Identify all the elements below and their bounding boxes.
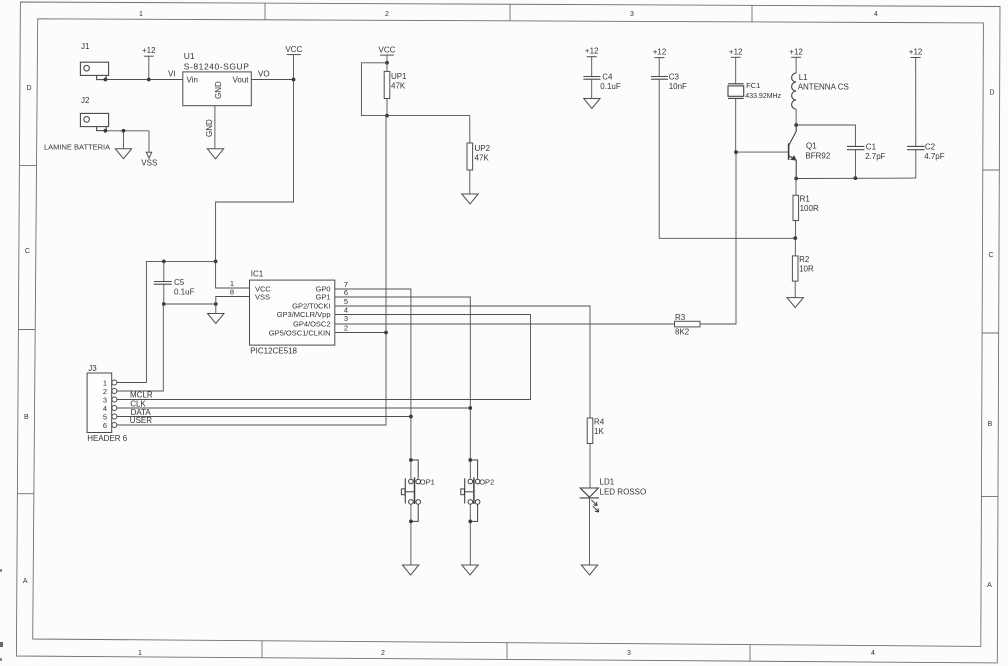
+12 power symbol at C2 (909, 48, 923, 58)
svg-text:C5: C5 (174, 278, 185, 287)
wire to ground (123, 131, 125, 149)
junction UP1 top (385, 61, 389, 65)
junction OP1 bottom (409, 520, 413, 524)
resistor UP2 (467, 143, 473, 170)
resistor R4 (587, 418, 593, 444)
wire collector to C1 (796, 125, 855, 146)
wire C5 top stem (163, 261, 165, 281)
svg-text:0.1uF: 0.1uF (174, 288, 195, 297)
wire C4 top stem (591, 57, 593, 77)
wire VCC branch to J3 pin 1 (117, 261, 216, 382)
wire OP1 bottom contact to ground (410, 504, 412, 565)
capacitor C1 (847, 146, 864, 149)
junction CLK / OP2 column (468, 406, 472, 410)
wire GP0 pin 7 to OP1 top contact (335, 289, 411, 479)
svg-text:UP2: UP2 (475, 144, 491, 153)
svg-text:3: 3 (627, 650, 631, 657)
wire to UP2 (387, 116, 470, 143)
svg-text:433.92MHz: 433.92MHz (745, 93, 781, 100)
svg-text:+12: +12 (789, 47, 803, 56)
svg-text:L1: L1 (799, 73, 808, 82)
connector J1 (80, 62, 108, 79)
svg-text:2: 2 (381, 650, 385, 657)
svg-text:LD1: LD1 (600, 478, 615, 487)
wire U1 Vout, net VO (251, 79, 293, 81)
ground at U1 (207, 149, 223, 159)
svg-text:D: D (26, 85, 31, 92)
svg-text:2.7pF: 2.7pF (865, 152, 886, 161)
svg-text:MCLR: MCLR (130, 391, 153, 400)
+12 power symbol at C3 (653, 48, 667, 58)
wire DATA row (117, 416, 411, 418)
resonator FC1 (728, 84, 744, 99)
svg-text:C4: C4 (602, 73, 613, 82)
+12 power symbol at L1 (789, 47, 803, 57)
wire R1 to R2 (794, 221, 796, 256)
svg-text:Vout: Vout (232, 76, 249, 85)
pin circle 5 (112, 414, 117, 419)
wire VCC stem (386, 55, 388, 63)
pin circle 2 (112, 389, 117, 394)
pushbutton OP1 (401, 460, 420, 521)
junction +12 tap (147, 78, 151, 82)
svg-text:100R: 100R (800, 204, 819, 213)
wire L1 top stem (795, 57, 797, 73)
ground at OP1 (402, 565, 418, 575)
svg-text:OP1: OP1 (420, 478, 435, 487)
svg-text:VI: VI (168, 70, 176, 79)
ground at R2 (787, 298, 803, 308)
wire GP4 pin 3 to R3 (335, 323, 675, 325)
svg-text:0.1uF: 0.1uF (600, 82, 621, 91)
wire emitter to C1/C2 bottoms (796, 177, 916, 179)
junction VCC to C5 branch (214, 260, 218, 264)
svg-text:+12: +12 (653, 48, 667, 57)
junction R1/R2/C3 (793, 236, 797, 240)
svg-text:U1: U1 (184, 51, 195, 61)
wire VCC rail down to IC1 pin 1 (216, 55, 294, 288)
ground at OP2 (462, 565, 478, 575)
power symbol VSS (arrow) (146, 152, 151, 158)
wire IC1 VSS pin 8 to ground (216, 297, 250, 314)
junction VO / VCC (292, 78, 296, 82)
capacitor C2 (907, 146, 924, 149)
svg-text:+12: +12 (142, 46, 156, 55)
junction J2 pin (104, 129, 108, 133)
wire C3 top stem (658, 58, 660, 77)
pin circle 6 (112, 423, 117, 428)
junction J2 ground branch (122, 129, 126, 133)
wire FC1 top stem (735, 57, 737, 84)
svg-text:GP5/OSC1/CLKIN: GP5/OSC1/CLKIN (269, 328, 331, 337)
svg-text:4: 4 (874, 11, 878, 18)
svg-text:4: 4 (871, 650, 875, 657)
ground at J2 (115, 149, 131, 159)
svg-text:3: 3 (344, 314, 348, 323)
wire C1 bottom stem (854, 150, 856, 178)
svg-text:4: 4 (344, 305, 348, 314)
svg-text:C: C (988, 252, 993, 259)
svg-text:ANTENNA CS: ANTENNA CS (798, 83, 849, 92)
ground at IC1 VSS (208, 314, 224, 324)
ground at C4 (584, 99, 600, 109)
svg-text:VCC: VCC (379, 46, 396, 55)
wire C2 top stem (915, 58, 917, 147)
svg-text:Q1: Q1 (806, 142, 817, 151)
ground at LED (581, 565, 597, 575)
wire R4 to LED (589, 444, 591, 489)
wire USER row up to UP1 junction (117, 116, 386, 425)
junction GP5 / UP1 net (384, 331, 388, 335)
svg-text:8K2: 8K2 (675, 328, 690, 337)
VCC power symbol at UP1 (379, 46, 396, 56)
wire FC1 to base node (735, 98, 737, 152)
wire R3 to Q1 base node (700, 152, 736, 324)
LED LD1 (580, 488, 599, 512)
pin circle 1 (112, 380, 117, 385)
svg-text:D: D (989, 90, 994, 97)
junction C5 top (162, 260, 166, 264)
inductor L1 (792, 73, 797, 109)
svg-text:HEADER 6: HEADER 6 (87, 434, 128, 443)
svg-text:IC1: IC1 (251, 270, 264, 279)
svg-text:LED ROSSO: LED ROSSO (600, 488, 647, 497)
svg-text:3: 3 (630, 11, 634, 18)
junction C5 bottom / J3 pin 2 (162, 302, 166, 306)
wire GP3 pin 4 to MCLR row (117, 315, 531, 400)
svg-text:4.7pF: 4.7pF (924, 152, 945, 161)
svg-text:B: B (988, 421, 993, 428)
connector J3 header (87, 373, 112, 433)
svg-text:6: 6 (103, 421, 107, 430)
svg-text:C3: C3 (669, 73, 680, 82)
junction C1 bottom (854, 176, 858, 180)
junction OP2 top (468, 458, 472, 462)
svg-text:1: 1 (138, 650, 142, 657)
connector J2 (80, 113, 108, 130)
wire J1 to U1 Vin, net VI (105, 79, 182, 81)
junction VSS ground (214, 302, 218, 306)
wire to Q1 base (736, 151, 788, 153)
wire GP2 pin 5 to R4 (335, 306, 590, 418)
svg-text:47K: 47K (475, 154, 490, 163)
junction Q1 base node (734, 150, 738, 154)
svg-text:R3: R3 (675, 313, 686, 322)
resistor R2 (792, 256, 798, 281)
svg-text:GP3/MCLR/Vpp: GP3/MCLR/Vpp (277, 310, 331, 319)
wire UP2 bottom lead (469, 170, 471, 194)
svg-text:GND: GND (214, 81, 223, 99)
wire +12 stem (148, 56, 150, 79)
svg-text:BFR92: BFR92 (805, 152, 830, 161)
svg-text:B: B (24, 414, 29, 421)
+12 power symbol at FC1 (729, 47, 743, 57)
resistor R3 (675, 321, 701, 327)
junction DATA / OP1 column (409, 415, 413, 419)
wire LED to ground (589, 498, 591, 565)
svg-text:10R: 10R (799, 265, 814, 274)
wire emitter to R1 (795, 179, 797, 196)
capacitor C5 (154, 282, 172, 285)
svg-text:VO: VO (258, 70, 270, 79)
junction OP2 bottom (468, 520, 472, 524)
wire to J3 pin 2 (117, 304, 163, 391)
wire GP5 pin 2 (335, 332, 386, 334)
svg-text:J3: J3 (88, 364, 97, 373)
junction UP1 bottom (385, 114, 389, 118)
microcontroller IC1 (250, 280, 335, 345)
svg-text:GP4/OSC2: GP4/OSC2 (293, 320, 331, 329)
svg-text:UP1: UP1 (391, 72, 407, 81)
wire C4 bottom stem (591, 79, 593, 98)
VCC power symbol at U1 output (285, 45, 302, 55)
svg-text:GP1: GP1 (315, 293, 330, 302)
svg-text:VSS: VSS (255, 293, 270, 302)
svg-text:GND: GND (205, 119, 214, 137)
pin circle 4 (112, 406, 117, 411)
ground at UP2 (462, 194, 478, 204)
svg-text:J2: J2 (81, 96, 90, 105)
svg-text:LAMINE BATTERIA: LAMINE BATTERIA (44, 143, 110, 152)
voltage regulator U1 (183, 72, 252, 106)
wire GP1 pin 6 to OP2 top contact (335, 297, 471, 479)
svg-text:R2: R2 (799, 255, 810, 264)
wire CLK row (117, 407, 470, 409)
svg-text:PIC12CE518: PIC12CE518 (250, 347, 297, 356)
+12 power symbol at J1 line (142, 46, 156, 56)
junction collector node (794, 123, 798, 127)
+12 power symbol at C4 (585, 47, 599, 57)
svg-text:A: A (987, 582, 992, 589)
svg-text:A: A (23, 578, 28, 585)
wire C5 bottom stem (163, 284, 165, 304)
wire U1 GND pin (214, 106, 216, 149)
svg-text:R1: R1 (800, 195, 811, 204)
svg-text:10nF: 10nF (669, 82, 687, 91)
junction J1 pin (104, 78, 108, 82)
svg-text:VCC: VCC (285, 45, 302, 54)
wire L1 to collector (795, 109, 797, 125)
svg-text:C1: C1 (866, 143, 877, 152)
pin circle 3 (112, 397, 117, 402)
wire loop around UP1 (361, 63, 387, 116)
resistor R1 (793, 195, 799, 220)
svg-text:VSS: VSS (141, 159, 157, 168)
svg-text:S-81240-SGUP: S-81240-SGUP (184, 61, 250, 71)
svg-text:1: 1 (139, 11, 143, 18)
svg-text:J1: J1 (81, 42, 90, 51)
junction OP1 top (409, 458, 413, 462)
svg-text:+12: +12 (729, 47, 743, 56)
wire UP1 leads (386, 63, 388, 72)
wire R2 to ground (794, 281, 796, 298)
svg-text:8: 8 (230, 288, 234, 297)
wire OP2 bottom contact to ground (469, 504, 471, 565)
transistor Q1 (789, 125, 797, 179)
wire C2 bottom stem (915, 150, 917, 178)
wire J2 to VSS (105, 130, 149, 132)
resistor UP1 (384, 71, 390, 98)
svg-text:Vin: Vin (187, 76, 198, 85)
svg-text:2: 2 (344, 324, 348, 333)
pushbutton OP2 (461, 460, 480, 521)
svg-text:C2: C2 (925, 143, 936, 152)
svg-text:OP2: OP2 (479, 478, 494, 487)
svg-text:47K: 47K (391, 82, 406, 91)
wire VSS net (164, 303, 216, 305)
svg-text:USER: USER (130, 416, 152, 425)
wire C3 to R1/R2 junction (659, 79, 795, 238)
wire to VSS arrow (148, 131, 150, 153)
capacitor C3 (651, 77, 668, 80)
capacitor C4 (583, 77, 600, 80)
svg-text:+12: +12 (909, 48, 923, 57)
junction emitter node (794, 177, 798, 181)
svg-text:1K: 1K (594, 427, 604, 436)
svg-text:FC1: FC1 (746, 81, 760, 90)
svg-text:C: C (25, 248, 30, 255)
svg-text:R4: R4 (594, 418, 605, 427)
svg-text:+12: +12 (585, 47, 599, 56)
svg-text:2: 2 (385, 11, 389, 18)
